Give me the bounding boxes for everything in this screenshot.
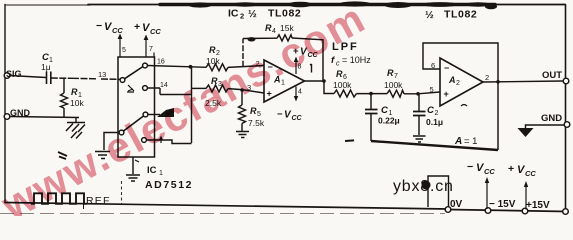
svg-text:5: 5	[122, 47, 126, 54]
svg-text:R: R	[71, 87, 78, 97]
squiggle pin4 A2	[461, 105, 467, 107]
REF square wave	[31, 193, 87, 204]
svg-text:A: A	[454, 136, 462, 147]
svg-text:IC: IC	[147, 165, 157, 176]
up arrow mark	[160, 138, 162, 144]
dashed control line from REF	[121, 181, 123, 204]
resistor R2 10k	[206, 64, 228, 71]
pin 1 tick	[310, 64, 312, 73]
node 0V terminal	[445, 207, 451, 213]
node GND right terminal	[564, 122, 570, 128]
border frame	[5, 4, 90, 6]
ground (small, under S2 feed)	[95, 152, 110, 159]
svg-text:16: 16	[157, 59, 165, 66]
box bottom pin stub + ground	[132, 157, 134, 174]
svg-text:AD7512: AD7512	[145, 179, 193, 191]
svg-text:CC: CC	[525, 169, 536, 178]
switch S2 arm	[124, 116, 144, 131]
wire pin6 feedback	[423, 43, 498, 150]
svg-text:CC: CC	[150, 27, 161, 36]
wire R3 to op-amp pin3	[228, 89, 264, 93]
svg-text:100k: 100k	[333, 80, 352, 90]
capacitor C2 0.1u (LPF)	[418, 94, 420, 111]
staple wire 0V	[428, 176, 449, 208]
scan blobs on top border	[188, 1, 497, 9]
ground mark under S1 pole	[127, 85, 134, 92]
wire SIG to C1	[10, 76, 46, 78]
svg-text:REF: REF	[86, 195, 111, 207]
wire +Vcc arrow	[525, 184, 527, 210]
svg-text:10k: 10k	[206, 56, 220, 66]
svg-text:+: +	[134, 21, 140, 33]
wire R2 to op-amp pin2	[228, 66, 264, 68]
switch S2 throw a	[143, 112, 148, 117]
svg-text:CC: CC	[292, 115, 303, 122]
wire S2 pole to ground	[104, 133, 119, 151]
pin 4 -Vcc arrow	[295, 87, 297, 100]
IC1 AD7512 switch box	[118, 57, 155, 157]
resistor R7 100k	[387, 90, 404, 97]
svg-text:1: 1	[159, 170, 163, 177]
svg-text:1μ: 1μ	[41, 62, 51, 72]
wire GND run	[10, 117, 79, 118]
wire S1 throw a to R2	[147, 66, 206, 68]
+15V terminal	[522, 208, 528, 214]
svg-text:R: R	[387, 68, 394, 78]
ground under R5	[236, 132, 249, 138]
wire -Vcc arrow	[486, 180, 488, 209]
svg-text:7: 7	[149, 46, 153, 53]
wire R7 to pin5	[404, 92, 440, 94]
svg-text:CC: CC	[112, 26, 123, 35]
resistor R4 15k feedback	[277, 35, 292, 41]
svg-text:OUT: OUT	[542, 70, 562, 81]
op-amp A2	[440, 58, 483, 106]
wire jog down to LPF	[324, 81, 334, 94]
wire S2 throw b	[146, 140, 191, 144]
op-amp A1	[264, 60, 305, 102]
svg-text:−: −	[277, 109, 283, 120]
svg-text:2: 2	[456, 80, 460, 87]
junction	[189, 65, 193, 69]
blob mark	[157, 108, 174, 117]
svg-text:2: 2	[485, 73, 489, 82]
svg-text:R: R	[265, 23, 272, 33]
svg-text:5: 5	[430, 85, 434, 94]
capacitor C1 0.22u (LPF)	[370, 94, 372, 109]
svg-text:10k: 10k	[70, 98, 84, 108]
svg-text:R: R	[250, 106, 257, 116]
svg-text:2: 2	[240, 12, 244, 21]
svg-text:− 15V: − 15V	[489, 199, 516, 210]
svg-text:= 10Hz: = 10Hz	[342, 55, 371, 65]
svg-text:13: 13	[98, 70, 106, 79]
svg-text:R: R	[336, 69, 343, 79]
svg-text:SIG: SIG	[6, 69, 22, 79]
pin 7 supply arrow	[145, 37, 147, 57]
blob on feedback wire	[248, 37, 256, 41]
resistor R5 7.5k vertical	[241, 90, 243, 105]
small mark left	[58, 152, 67, 159]
wire LPF bottom return	[371, 141, 498, 150]
speck	[345, 139, 354, 142]
svg-text:100k: 100k	[384, 80, 403, 90]
resistor R6 100k	[334, 90, 357, 97]
svg-text:TL082: TL082	[444, 9, 477, 21]
svg-text:4: 4	[298, 89, 302, 96]
svg-text:C: C	[427, 105, 434, 116]
pin 5 supply arrow	[119, 36, 121, 57]
-15V terminal	[485, 208, 491, 214]
switch S1 throw a	[143, 63, 148, 68]
switch S2 pole	[119, 130, 124, 135]
corner terminal	[563, 209, 569, 215]
ground (hatch, left)	[66, 118, 85, 139]
svg-text:14: 14	[160, 82, 168, 89]
svg-text:+: +	[508, 163, 514, 175]
wire feedback top run	[243, 38, 323, 81]
svg-text:GND: GND	[541, 113, 562, 124]
svg-text:R: R	[209, 45, 216, 55]
svg-text:+: +	[444, 89, 449, 99]
resistor R3 2.5k	[206, 85, 228, 92]
svg-text:C: C	[381, 105, 388, 116]
wire R4 left	[192, 87, 207, 89]
switch S1 arm	[125, 67, 144, 79]
wire feedback tap up	[242, 39, 244, 67]
capacitor C1 1u	[47, 72, 51, 85]
svg-text:5: 5	[257, 111, 261, 118]
pin 8 +Vcc arrow	[295, 59, 297, 74]
svg-text:A: A	[448, 75, 456, 85]
svg-text:0.22μ: 0.22μ	[378, 116, 400, 126]
wire GND right	[526, 125, 565, 128]
wire R6 to R7	[357, 93, 388, 95]
-Vcc label bottom	[467, 161, 495, 176]
svg-text:−: −	[444, 63, 449, 73]
svg-text:2: 2	[435, 110, 439, 117]
switch S2 throw b	[142, 138, 147, 143]
switch S1 throw b	[143, 86, 148, 91]
node OUT terminal	[563, 78, 569, 84]
wire S2 throw a to blob	[148, 114, 160, 116]
node SIG input terminal	[4, 69, 21, 79]
svg-text:IC: IC	[228, 8, 239, 20]
svg-text:½: ½	[425, 9, 434, 21]
svg-text:c: c	[336, 61, 340, 68]
svg-text:7: 7	[394, 73, 398, 80]
svg-text:7.5k: 7.5k	[248, 118, 265, 128]
svg-text:−: −	[96, 20, 102, 32]
faint artifact line at very bottom	[0, 213, 445, 215]
power label +VCC top	[134, 21, 161, 36]
wire C1 to switch box pin 13	[51, 78, 120, 79]
node GND input terminal	[4, 114, 10, 120]
wire A1 output	[305, 80, 325, 82]
ground under C2	[413, 136, 426, 142]
svg-text:−: −	[467, 161, 473, 173]
switch S1 pole	[120, 78, 125, 83]
+Vcc label bottom	[508, 163, 536, 178]
svg-text:0.1μ: 0.1μ	[426, 117, 443, 127]
svg-text:TL082: TL082	[268, 8, 301, 20]
ground (solid triangle, right)	[518, 128, 534, 137]
wire junction down	[147, 67, 191, 143]
junction R5 tap	[240, 88, 244, 92]
wire A2 output to OUT	[483, 81, 563, 82]
svg-text:= 1: = 1	[464, 136, 477, 147]
svg-text:½: ½	[248, 8, 257, 20]
svg-text:0V: 0V	[450, 199, 463, 210]
svg-text:CC: CC	[484, 167, 495, 176]
svg-text:+15V: +15V	[526, 200, 550, 211]
power label -VCC top	[96, 20, 123, 35]
resistor R1 10k vertical	[63, 78, 65, 116]
